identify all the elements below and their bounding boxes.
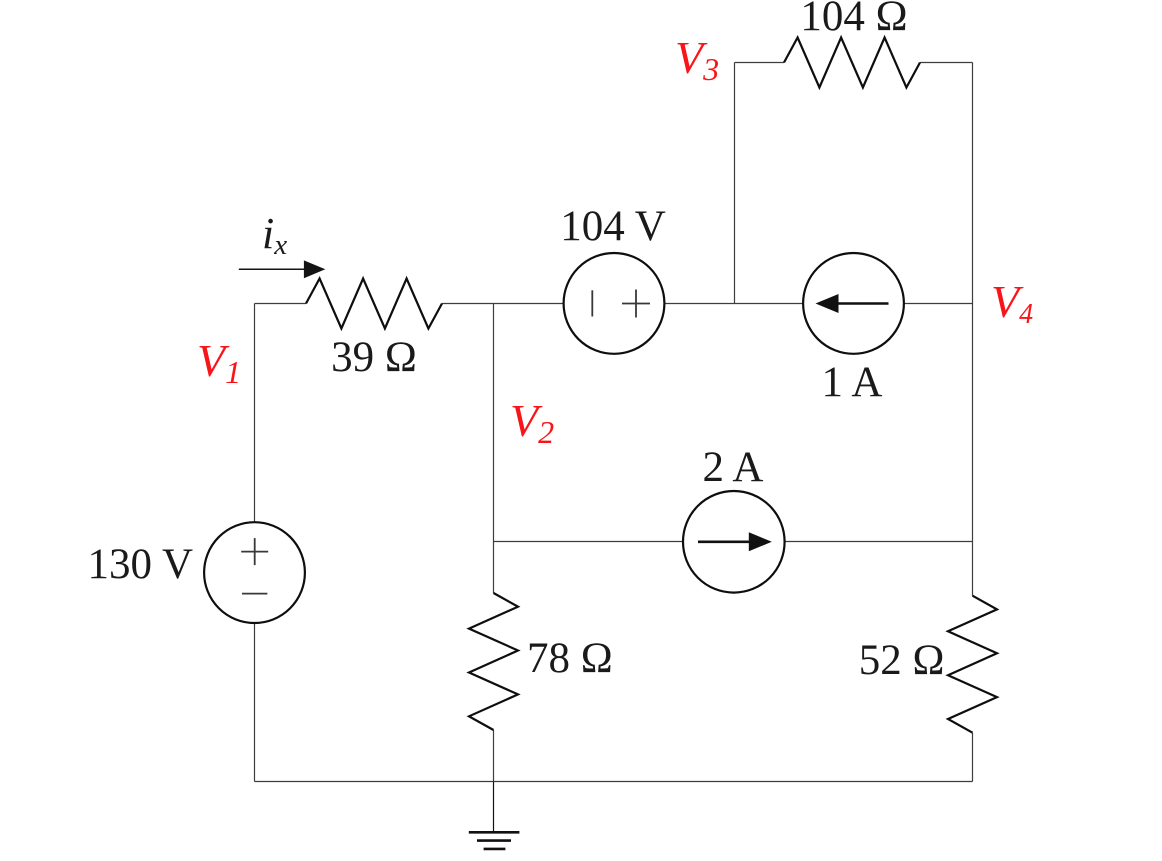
wire: middle row from 2A source to right rail bbox=[785, 541, 973, 543]
wire: top rail left of 104ohm bbox=[735, 62, 785, 64]
svg-text:ix: ix bbox=[262, 209, 287, 261]
130V minus sign bbox=[242, 593, 267, 595]
svg-text:130 V: 130 V bbox=[87, 541, 193, 588]
svg-text:104 V: 104 V bbox=[560, 203, 666, 250]
svg-text:2 A: 2 A bbox=[703, 444, 764, 491]
voltage source 104V circle bbox=[564, 253, 665, 354]
wire: middle row from V2 rail to 2A source bbox=[494, 541, 683, 543]
current source 2A circle bbox=[683, 491, 785, 593]
130V plus sign bbox=[241, 538, 268, 565]
wire: top rail right of 104ohm bbox=[920, 62, 973, 64]
wire: left rail V1 bottom segment bbox=[254, 623, 256, 782]
wire: main row left stub bbox=[255, 303, 307, 305]
svg-text:104 Ω: 104 Ω bbox=[800, 0, 907, 40]
current source 1A circle bbox=[803, 253, 904, 354]
104V minus sign (rotated bar) bbox=[591, 290, 593, 316]
wire: V2 rail from main row down bbox=[493, 304, 495, 594]
current arrow i_x bbox=[239, 268, 307, 270]
resistor 52ohm bbox=[948, 596, 997, 733]
1A arrow (pointing left) bbox=[837, 302, 889, 305]
svg-text:52 Ω: 52 Ω bbox=[859, 637, 945, 684]
wire: main row between 39ohm and 104V source bbox=[442, 303, 564, 305]
svg-text:1 A: 1 A bbox=[822, 359, 883, 406]
svg-text:39 Ω: 39 Ω bbox=[331, 334, 417, 381]
wire: V2 rail below 78ohm bbox=[493, 730, 495, 782]
wire: main row from 1A source to V4 rail bbox=[904, 303, 973, 305]
wire: bottom rail bbox=[255, 781, 973, 783]
svg-text:V1: V1 bbox=[197, 335, 241, 390]
104V plus sign bbox=[622, 290, 650, 318]
wire: main row between 104V source and 1A source bbox=[664, 303, 803, 305]
resistor 104ohm bbox=[784, 38, 920, 88]
svg-text:V4: V4 bbox=[991, 276, 1033, 330]
wire: right rail above 52ohm bbox=[972, 542, 974, 596]
wire: right rail V4 upper bbox=[972, 63, 974, 542]
svg-text:V2: V2 bbox=[510, 395, 554, 450]
2A arrow (pointing right) bbox=[698, 540, 750, 543]
resistor 39ohm bbox=[306, 279, 442, 329]
wire: left rail V1 top segment bbox=[254, 304, 256, 523]
ground bbox=[469, 782, 520, 849]
voltage source 130V circle bbox=[204, 522, 305, 623]
wire: V3 riser bbox=[734, 63, 736, 304]
resistor 78ohm bbox=[469, 593, 518, 730]
wire: right rail below 52ohm bbox=[972, 733, 974, 782]
svg-text:V3: V3 bbox=[675, 32, 719, 87]
svg-text:78 Ω: 78 Ω bbox=[527, 635, 613, 682]
